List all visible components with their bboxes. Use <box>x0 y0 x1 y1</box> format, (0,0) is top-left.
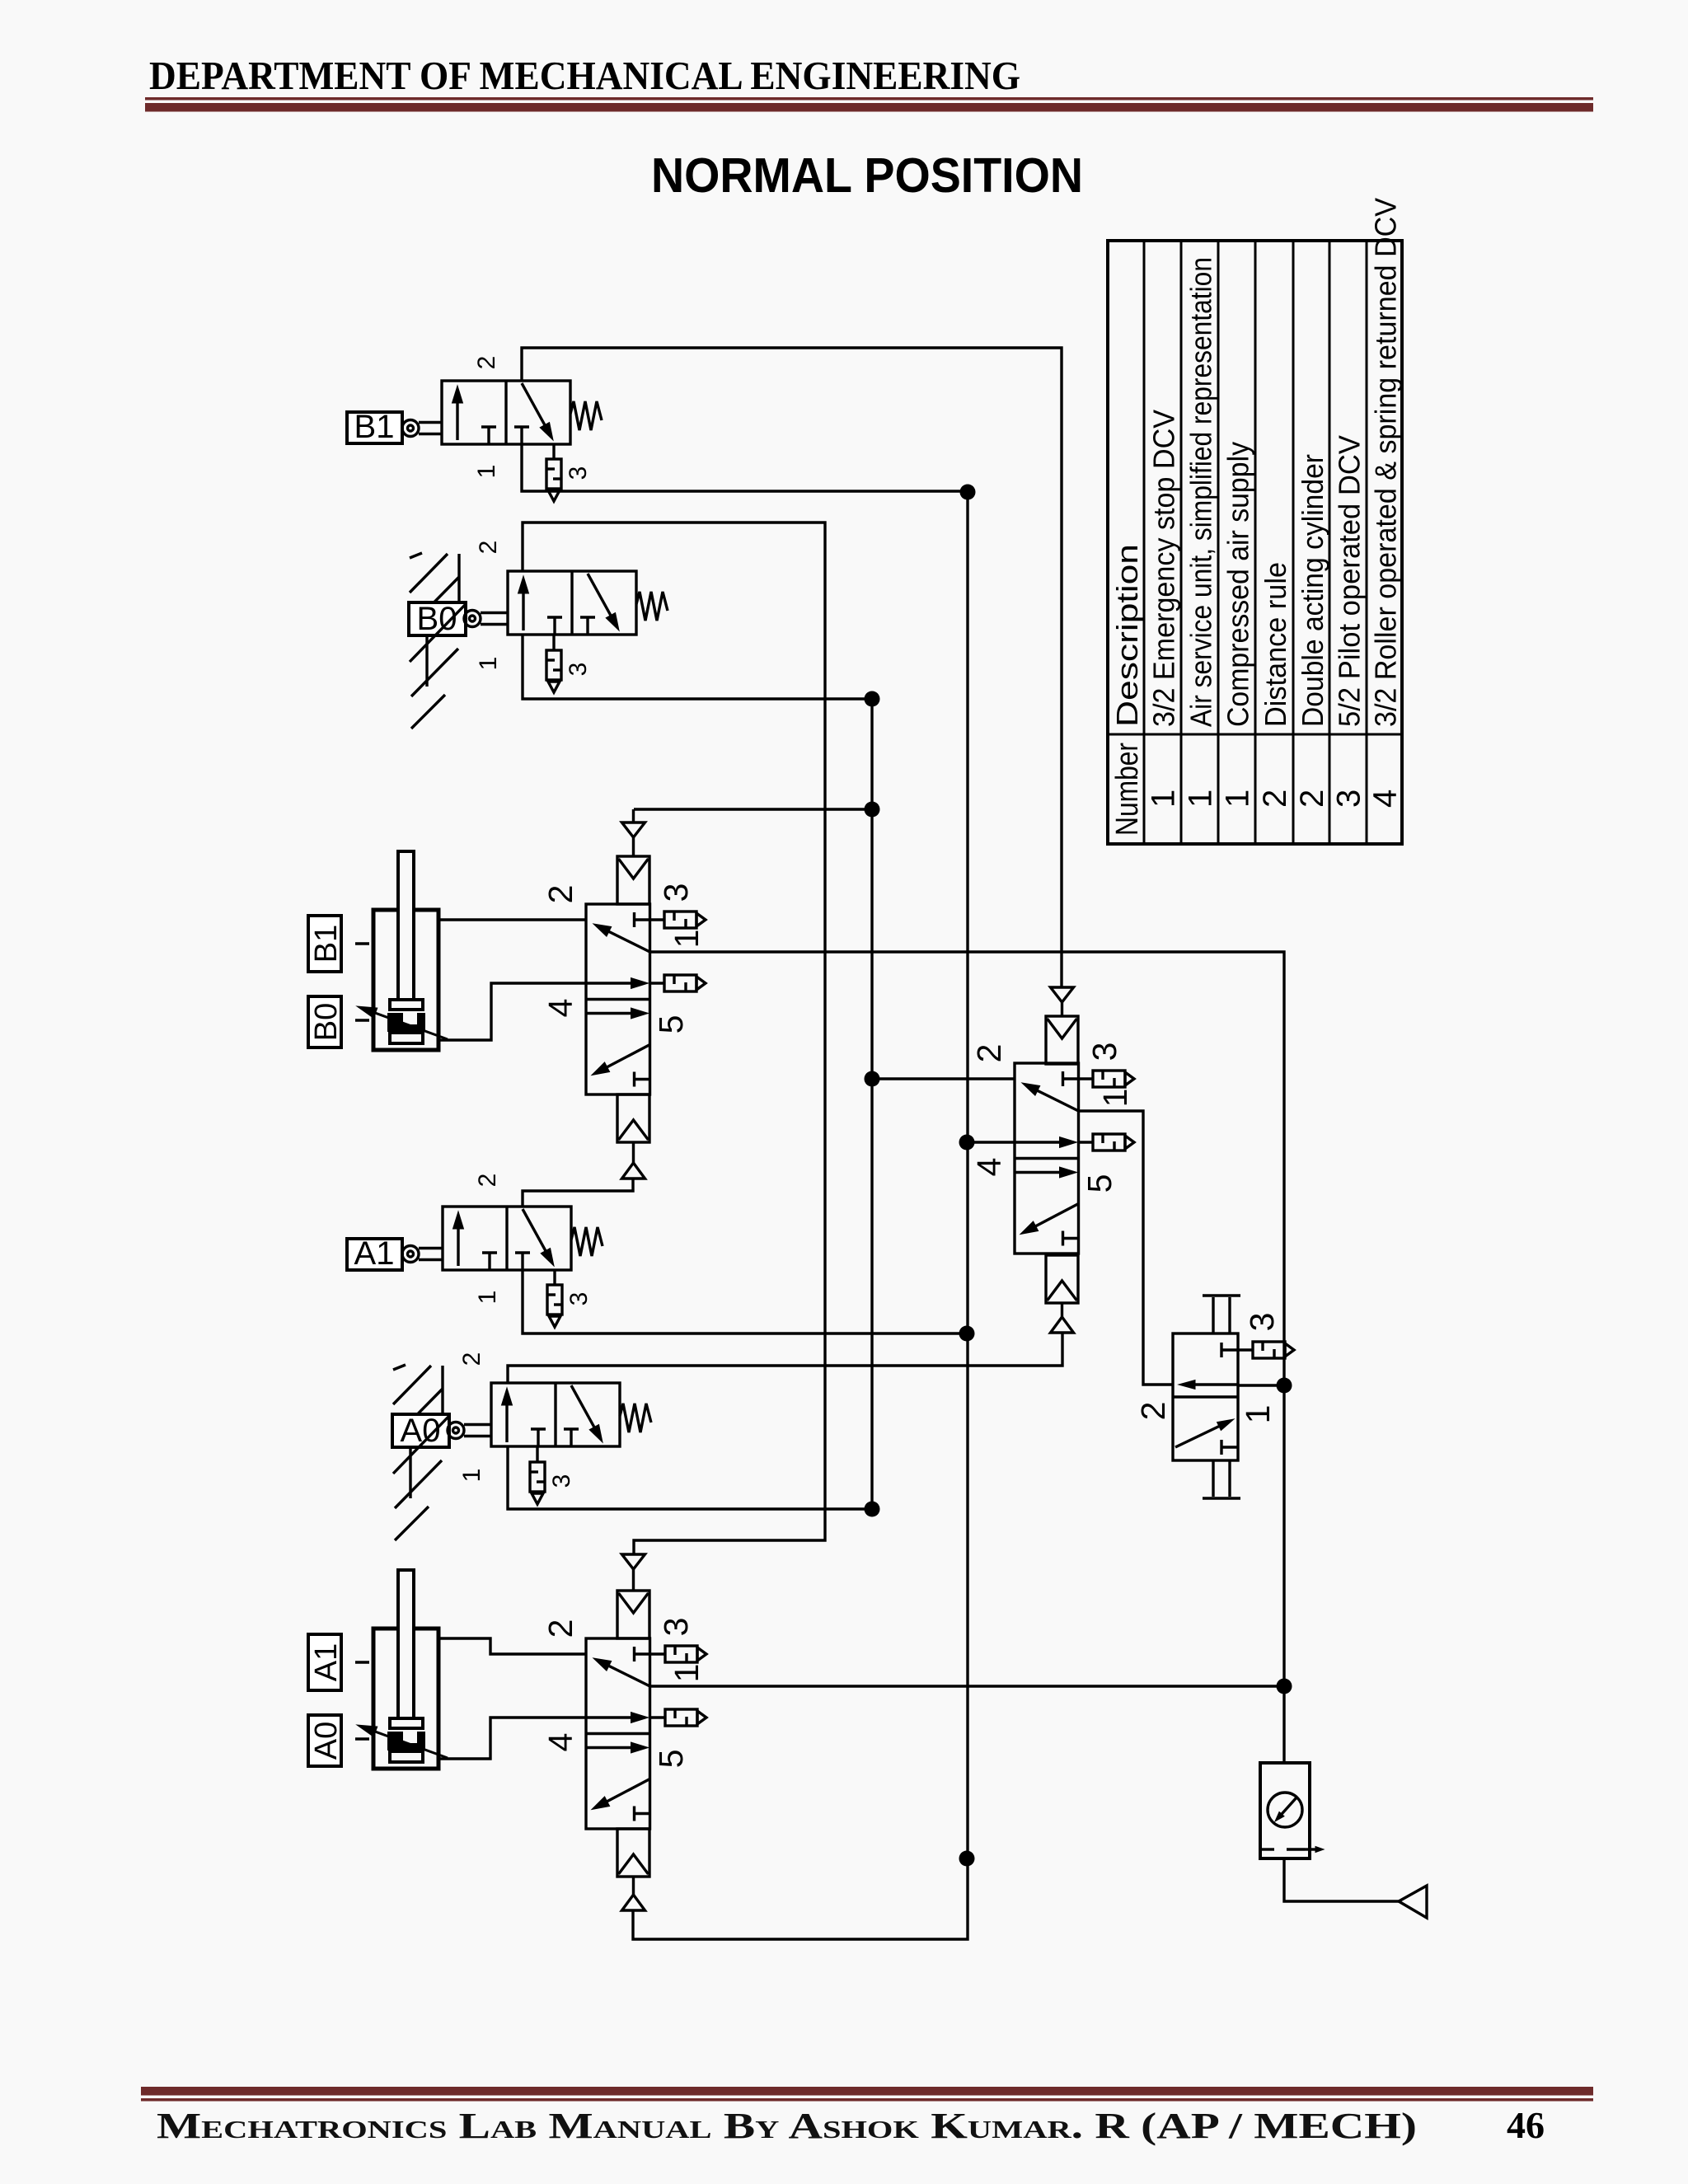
wire B0 port1 to node N2 <box>523 635 872 699</box>
valve B1 exhaust path arrow 2-3 <box>522 383 545 425</box>
node N6 junction dot <box>959 1135 975 1151</box>
valve V2 flow path 1-2 (top box) <box>609 1666 650 1686</box>
svg-text:Compressed air supply: Compressed air supply <box>1221 442 1255 727</box>
valve A0 exhaust path arrow 2-3 <box>571 1385 594 1427</box>
3/2 roller valve A0 body <box>491 1383 620 1446</box>
svg-text:Air service unit, simplified r: Air service unit, simplified representat… <box>1184 257 1218 727</box>
wall hatch stroke through A0 label <box>393 1416 449 1474</box>
svg-text:1: 1 <box>1239 1405 1277 1424</box>
valve A0 exhaust silencer port3 <box>536 1447 538 1462</box>
svg-text:4: 4 <box>542 1733 579 1752</box>
valve B0 blocked port mark (flow box) <box>547 616 562 618</box>
svg-text:DEPARTMENT OF MECHANICAL ENGIN: DEPARTMENT OF MECHANICAL ENGINEERING <box>149 53 1020 98</box>
sensor position label box A0 <box>308 1715 341 1766</box>
valve V2 flow path 2-3 (bottom box) <box>586 1746 631 1749</box>
valve A0 label box <box>392 1414 449 1447</box>
wall mount hatching for A0 <box>441 1366 443 1444</box>
svg-text:Number: Number <box>1110 743 1145 836</box>
valve B1 roller actuator <box>402 420 419 437</box>
valve A1 flow path arrow 1-2 <box>457 1229 459 1266</box>
svg-text:NORMAL POSITION: NORMAL POSITION <box>651 148 1083 203</box>
node N8 junction dot <box>865 1502 880 1517</box>
emergency valve blocked port 3 <box>1220 1343 1222 1357</box>
wire valve V1 port1 supply line to air service unit <box>649 952 1284 1763</box>
cylinder B piston rod <box>398 851 414 1001</box>
svg-text:3: 3 <box>657 1618 695 1637</box>
valve V3 bottom pilot <box>1046 1255 1078 1303</box>
svg-text:4: 4 <box>1367 790 1404 808</box>
sensor position label box B1 <box>308 916 341 972</box>
svg-text:A0: A0 <box>309 1722 344 1760</box>
parts list table grid <box>1108 241 1402 844</box>
svg-text:3: 3 <box>1331 790 1367 808</box>
svg-text:1: 1 <box>1183 790 1219 808</box>
svg-text:A0: A0 <box>401 1413 441 1449</box>
cylinder B distance rule tick upper <box>355 942 369 944</box>
5/2 pilot valve V3 body <box>1015 1063 1079 1254</box>
valve V1 silencer port5 <box>649 982 664 984</box>
svg-text:46: 46 <box>1507 2104 1545 2146</box>
wire valve V3 port4 branch <box>967 1141 1015 1143</box>
svg-text:1: 1 <box>474 1291 501 1305</box>
3/2 roller valve A1 body <box>443 1207 571 1270</box>
svg-text:1: 1 <box>1146 790 1182 808</box>
valve B0 return spring <box>636 592 668 621</box>
valve A0 flow path arrow 1-2 <box>505 1405 508 1442</box>
5/2 pilot valve V1 body <box>586 904 650 1094</box>
header rule thin line <box>145 97 1593 101</box>
double acting cylinder B body <box>373 910 438 1050</box>
header rule thick line <box>145 103 1593 112</box>
air service unit regulator circle <box>1268 1793 1302 1827</box>
wire node N4 to valve V3 port2 <box>872 1077 1015 1080</box>
node N10 junction dot (supply to emergency valve) <box>1277 1378 1292 1394</box>
wire node N1 down bus (to valve V2 bottom pilot) <box>633 492 968 1939</box>
valve B1 blocked port mark (exhaust box) <box>514 425 529 428</box>
wire cylinder A bottom port to valve V2 port4 <box>438 1718 586 1759</box>
valve V2 silencer port5 <box>650 1716 665 1718</box>
valve B0 label box <box>409 602 466 635</box>
svg-text:3: 3 <box>1243 1313 1281 1332</box>
cylinder A piston <box>390 1718 423 1728</box>
valve A0 return spring <box>620 1404 651 1432</box>
wire node N2 down bus <box>870 699 873 1509</box>
valve V2 blocked port 3 (top box) <box>633 1647 635 1661</box>
svg-text:3: 3 <box>565 663 592 677</box>
svg-text:2: 2 <box>474 1174 501 1188</box>
valve V3 top pilot line triangle <box>1051 987 1074 1002</box>
wire air service unit to compressed air supply <box>1284 1858 1399 1901</box>
wire A0 port2 to valve V3 bottom pilot <box>508 1333 1062 1383</box>
cylinder B piston <box>390 1000 423 1010</box>
valve B1 blocked port mark (flow box) <box>481 425 496 428</box>
valve V3 blocked port 5 (bottom box) <box>1062 1231 1064 1246</box>
cylinder A piston rod <box>398 1570 414 1719</box>
wire A1 port2 to valve V1 bottom pilot <box>523 1179 633 1207</box>
wire valve V1 top pilot to node N3 <box>634 808 872 810</box>
double acting cylinder A body <box>373 1629 438 1769</box>
svg-text:1: 1 <box>458 1469 485 1483</box>
valve V1 top pilot <box>617 856 649 904</box>
valve V3 flow path 1-4 (bottom box) <box>1036 1204 1079 1226</box>
svg-text:1: 1 <box>668 930 706 949</box>
valve V2 bottom pilot <box>617 1829 649 1877</box>
valve V2 blocked port 5 (bottom box) <box>633 1807 635 1821</box>
valve V3 silencer port3 <box>1078 1077 1093 1080</box>
cylinder B distance rule arrow <box>376 1013 448 1039</box>
valve V1 bottom pilot line triangle <box>622 1163 645 1179</box>
svg-text:1: 1 <box>473 465 500 479</box>
valve V2 top pilot <box>617 1591 649 1638</box>
valve V1 flow path 2-3 (bottom box) <box>586 1012 631 1015</box>
valve V2 silencer port3 <box>650 1652 665 1655</box>
cylinder B distance rule tick lower <box>355 1019 369 1021</box>
svg-text:B0: B0 <box>417 601 457 637</box>
valve A1 exhaust path arrow 2-3 <box>523 1209 546 1251</box>
valve V1 flow path 1-2 (top box) <box>609 931 650 952</box>
valve A1 blocked port mark (exhaust box) <box>515 1251 530 1254</box>
valve V3 top pilot <box>1046 1016 1078 1064</box>
svg-text:3: 3 <box>1085 1043 1123 1062</box>
svg-text:A1: A1 <box>354 1235 395 1272</box>
valve V3 flow path 2-3 (bottom box) <box>1015 1171 1060 1174</box>
svg-text:3: 3 <box>565 1292 593 1306</box>
valve B0 flow path arrow 1-2 <box>522 593 524 630</box>
valve V2 flow path 1-4 (bottom box) <box>607 1779 650 1802</box>
cylinder A piston seal <box>390 1751 423 1762</box>
valve V1 blocked port 3 (top box) <box>633 912 635 927</box>
svg-text:2: 2 <box>542 885 579 904</box>
svg-text:3: 3 <box>657 883 695 902</box>
svg-text:2: 2 <box>970 1044 1008 1063</box>
emergency stop valve body <box>1173 1333 1238 1460</box>
svg-text:Distance rule: Distance rule <box>1259 562 1292 727</box>
svg-text:Double acting cylinder: Double acting cylinder <box>1296 454 1329 727</box>
node N7 junction dot <box>959 1326 975 1342</box>
node N4 junction dot <box>865 1071 880 1087</box>
wire valve V3 port1 to emergency valve port2 <box>1078 1111 1173 1385</box>
wall mount hatching for B0 <box>457 554 460 632</box>
svg-text:5: 5 <box>652 1015 690 1034</box>
valve V2 top pilot line triangle <box>622 1554 645 1569</box>
valve A1 exhaust silencer port3 <box>553 1270 556 1285</box>
cylinder A distance rule tick lower <box>355 1737 369 1740</box>
valve B1 flow path arrow 1-2 <box>456 403 458 440</box>
emergency valve push button top <box>1212 1297 1214 1333</box>
wire emergency valve port1 stub <box>1238 1384 1284 1386</box>
air service unit dashed drain line <box>1262 1848 1274 1850</box>
svg-text:5/2 Pilot operated DCV: 5/2 Pilot operated DCV <box>1333 435 1367 727</box>
cylinder B piston seal <box>390 1033 423 1043</box>
valve B1 exhaust silencer port3 <box>552 444 555 459</box>
valve V1 blocked port 5 (bottom box) <box>633 1072 635 1087</box>
svg-text:1: 1 <box>1220 790 1256 808</box>
cylinder A distance rule tick upper <box>355 1661 369 1663</box>
valve A1 blocked port mark (flow box) <box>482 1251 497 1254</box>
node N5 dot on bus <box>959 1851 975 1867</box>
valve B0 exhaust silencer port3 <box>552 635 555 650</box>
valve B0 blocked port mark (exhaust box) <box>580 616 595 618</box>
wire cylinder B top port to valve V1 port2 <box>438 918 586 921</box>
5/2 pilot valve V2 body <box>586 1638 650 1829</box>
svg-text:B1: B1 <box>354 409 395 445</box>
svg-text:2: 2 <box>1134 1402 1172 1421</box>
valve A0 blocked port mark (exhaust box) <box>564 1427 579 1430</box>
svg-text:Mechatronics Lab Manual By Ash: Mechatronics Lab Manual By Ashok Kumar. … <box>157 2106 1417 2146</box>
svg-text:5: 5 <box>1081 1174 1118 1193</box>
svg-text:3/2 Emergency stop DCV: 3/2 Emergency stop DCV <box>1147 410 1181 727</box>
footer rule thick line <box>141 2087 1593 2096</box>
valve B0 roller actuator <box>464 611 481 627</box>
svg-text:1: 1 <box>1096 1089 1134 1108</box>
emergency valve flow arrow 1-2 (top box) <box>1195 1383 1238 1385</box>
svg-text:2: 2 <box>542 1619 579 1638</box>
sensor position label box A1 <box>308 1634 341 1690</box>
wire B1 port1 to node N1 <box>522 444 968 491</box>
valve V1 flow path 4-5 (top box) <box>586 982 631 984</box>
svg-text:A1: A1 <box>309 1643 344 1681</box>
emergency valve blocked port (bottom box) <box>1220 1440 1222 1455</box>
svg-text:B0: B0 <box>309 1003 344 1041</box>
valve V1 top pilot line triangle <box>622 823 645 837</box>
emergency valve silencer port3 <box>1238 1348 1253 1351</box>
valve V1 bottom pilot <box>617 1094 649 1142</box>
wire valve V2 port1 to supply bus <box>650 1685 1284 1687</box>
svg-text:2: 2 <box>458 1352 485 1366</box>
svg-text:3: 3 <box>548 1474 575 1488</box>
valve V3 bottom pilot line triangle <box>1051 1317 1074 1333</box>
node N9 junction dot (supply to valve V2) <box>1277 1679 1292 1694</box>
wire cylinder B bottom port to valve V1 port4 <box>438 983 586 1040</box>
svg-text:1: 1 <box>475 657 502 671</box>
svg-text:Description: Description <box>1110 544 1144 727</box>
svg-text:1: 1 <box>668 1664 706 1683</box>
air service unit relief arrow <box>1305 1848 1315 1850</box>
emergency valve crossed arrow (bottom box) <box>1175 1427 1219 1447</box>
wire A1 port1 to bus node N7 <box>523 1271 967 1333</box>
wire B1 port2 to valve V3 top pilot line <box>522 348 1062 987</box>
valve A0 roller actuator <box>448 1422 464 1439</box>
svg-text:3/2 Roller operated & spring r: 3/2 Roller operated & spring returned DC… <box>1369 198 1403 727</box>
valve V1 flow path 1-4 (bottom box) <box>607 1045 650 1067</box>
svg-text:4: 4 <box>970 1158 1008 1177</box>
svg-text:5: 5 <box>652 1750 690 1769</box>
valve V2 flow path 4-5 (top box) <box>586 1716 631 1718</box>
valve B1 label box <box>347 412 402 443</box>
wire A0 port1 to node N8 <box>508 1446 872 1509</box>
valve A1 roller actuator <box>402 1246 419 1263</box>
compressed air supply source triangle <box>1399 1886 1427 1918</box>
node N1 junction dot <box>960 485 976 500</box>
valve V3 flow path 4-5 (top box) <box>1015 1141 1060 1143</box>
valve A1 return spring <box>571 1227 603 1256</box>
sensor position label box B0 <box>308 996 341 1047</box>
node N2 junction dot <box>865 691 880 707</box>
3/2 roller valve B1 body <box>442 381 570 444</box>
svg-text:2: 2 <box>475 541 502 555</box>
air service unit regulator arrow <box>1282 1797 1297 1814</box>
emergency valve push button bottom <box>1212 1460 1214 1497</box>
cylinder B magnetic piston band <box>387 1013 425 1032</box>
wire cylinder A top port to valve V2 port2 <box>438 1638 586 1654</box>
svg-text:2: 2 <box>1294 790 1330 808</box>
valve A0 blocked port mark (flow box) <box>531 1427 546 1430</box>
valve A1 label box <box>347 1239 402 1270</box>
valve B0 exhaust path arrow 2-3 <box>588 574 611 616</box>
wire B0 port2 to valve V2 top pilot <box>523 523 825 1554</box>
valve V3 silencer port5 <box>1078 1141 1093 1143</box>
valve V3 flow path 1-2 (top box) <box>1038 1090 1079 1111</box>
valve V3 blocked port 3 (top box) <box>1062 1071 1064 1086</box>
3/2 roller valve B0 body <box>508 571 636 635</box>
valve B1 return spring <box>570 401 602 430</box>
node N3 junction dot <box>865 802 880 818</box>
air service unit body <box>1260 1763 1310 1858</box>
svg-text:4: 4 <box>542 999 579 1018</box>
svg-text:2: 2 <box>1257 790 1293 808</box>
valve V2 bottom pilot line triangle <box>622 1895 645 1910</box>
svg-text:2: 2 <box>473 356 500 370</box>
footer rule thin line <box>141 2098 1593 2102</box>
wall hatch stroke through B0 label <box>410 604 466 662</box>
svg-text:B1: B1 <box>309 925 344 963</box>
svg-text:3: 3 <box>565 466 592 480</box>
cylinder A magnetic piston band <box>387 1732 425 1750</box>
cylinder A distance rule arrow <box>376 1732 448 1758</box>
valve V1 silencer port3 <box>649 918 664 921</box>
